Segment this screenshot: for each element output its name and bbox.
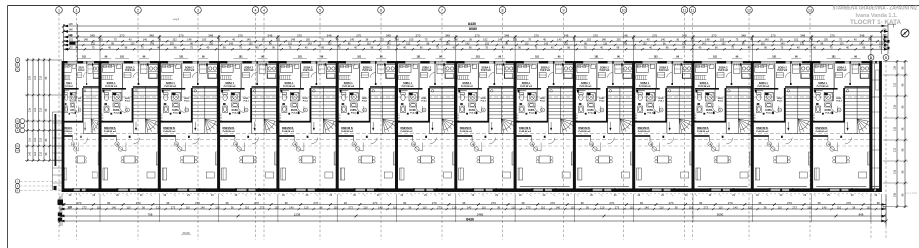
svg-text:36: 36 bbox=[877, 201, 881, 205]
svg-text:13: 13 bbox=[808, 8, 812, 12]
svg-text:143: 143 bbox=[386, 42, 391, 45]
svg-text:110: 110 bbox=[524, 42, 529, 45]
svg-text:110: 110 bbox=[452, 205, 457, 209]
svg-text:140: 140 bbox=[764, 38, 769, 42]
svg-text:270: 270 bbox=[593, 33, 598, 37]
svg-text:270: 270 bbox=[771, 33, 776, 37]
svg-text:105: 105 bbox=[513, 38, 518, 42]
svg-text:210: 210 bbox=[894, 147, 897, 152]
svg-text:110: 110 bbox=[482, 205, 487, 209]
svg-text:110: 110 bbox=[682, 42, 687, 45]
svg-text:273: 273 bbox=[881, 205, 886, 209]
svg-text:140: 140 bbox=[467, 205, 472, 209]
svg-text:181: 181 bbox=[179, 56, 184, 59]
svg-text:273: 273 bbox=[171, 205, 176, 209]
svg-text:36: 36 bbox=[675, 205, 678, 209]
svg-text:36: 36 bbox=[107, 201, 111, 205]
svg-text:152: 152 bbox=[249, 42, 254, 45]
svg-text:±0,00: ±0,00 bbox=[183, 231, 190, 235]
svg-text:270: 270 bbox=[475, 33, 480, 37]
svg-text:270: 270 bbox=[491, 201, 496, 205]
right end axis bubbles bbox=[868, 55, 874, 61]
svg-text:152: 152 bbox=[485, 42, 490, 45]
svg-text:273: 273 bbox=[792, 205, 797, 209]
svg-text:348: 348 bbox=[149, 33, 154, 37]
svg-text:135: 135 bbox=[894, 65, 897, 70]
svg-text:105: 105 bbox=[720, 38, 725, 42]
svg-text:143: 143 bbox=[308, 42, 313, 45]
unit 14 interior bbox=[812, 61, 870, 191]
svg-text:105: 105 bbox=[68, 206, 73, 209]
svg-text:148: 148 bbox=[394, 38, 399, 42]
svg-text:102: 102 bbox=[690, 38, 695, 42]
svg-text:152: 152 bbox=[564, 42, 569, 45]
svg-text:E: E bbox=[17, 63, 19, 67]
svg-text:218: 218 bbox=[894, 104, 897, 109]
svg-text:110: 110 bbox=[603, 42, 608, 45]
svg-text:1: 1 bbox=[58, 8, 60, 12]
svg-text:348: 348 bbox=[682, 33, 687, 37]
left axis bubbles bbox=[15, 58, 20, 63]
unit 2 interior bbox=[101, 61, 159, 191]
svg-text:273: 273 bbox=[704, 205, 709, 209]
svg-text:110: 110 bbox=[748, 205, 753, 209]
svg-text:148: 148 bbox=[291, 38, 296, 42]
svg-text:270: 270 bbox=[195, 201, 200, 205]
svg-text:110: 110 bbox=[422, 205, 427, 209]
svg-text:110: 110 bbox=[126, 205, 131, 209]
long dashed section lines through building bbox=[62, 96, 882, 98]
svg-text:143: 143 bbox=[150, 42, 155, 45]
svg-text:36: 36 bbox=[699, 201, 703, 205]
svg-text:2486: 2486 bbox=[477, 212, 484, 216]
svg-text:mj 1:100: mj 1:100 bbox=[905, 191, 917, 195]
svg-text:110: 110 bbox=[570, 205, 575, 209]
svg-text:102: 102 bbox=[794, 38, 799, 42]
svg-text:11: 11 bbox=[691, 8, 695, 12]
sheet border frame bbox=[7, 6, 9, 248]
svg-text:D: D bbox=[17, 67, 19, 71]
svg-text:Ivana Vanda 1.1.: Ivana Vanda 1.1. bbox=[856, 13, 899, 19]
svg-text:348: 348 bbox=[267, 33, 272, 37]
svg-text:273: 273 bbox=[260, 205, 265, 209]
svg-text:36: 36 bbox=[852, 205, 855, 209]
svg-text:140: 140 bbox=[868, 38, 873, 42]
svg-text:110: 110 bbox=[511, 205, 516, 209]
svg-text:348: 348 bbox=[90, 33, 95, 37]
svg-text:150: 150 bbox=[882, 38, 887, 41]
svg-text:2: 2 bbox=[137, 8, 139, 12]
svg-text:36: 36 bbox=[764, 205, 767, 209]
unit 13 interior bbox=[753, 61, 811, 191]
svg-text:110: 110 bbox=[837, 205, 842, 209]
svg-text:110: 110 bbox=[363, 205, 368, 209]
svg-text:218: 218 bbox=[894, 126, 897, 131]
building outer right wall bbox=[879, 61, 882, 192]
svg-text:270: 270 bbox=[179, 33, 184, 37]
svg-text:110: 110 bbox=[156, 205, 161, 209]
svg-text:5: 5 bbox=[319, 8, 321, 12]
svg-text:348: 348 bbox=[859, 33, 864, 37]
under-wall small dims row bbox=[62, 193, 882, 195]
svg-text:36: 36 bbox=[758, 201, 762, 205]
svg-text:STAMBENA GRAĐEVINA - ZAPADNI N: STAMBENA GRAĐEVINA - ZAPADNI NIZ bbox=[833, 6, 918, 12]
svg-text:270: 270 bbox=[787, 201, 792, 205]
svg-text:110: 110 bbox=[334, 205, 339, 209]
svg-text:36: 36 bbox=[403, 201, 407, 205]
svg-text:102: 102 bbox=[276, 38, 281, 42]
svg-text:105: 105 bbox=[824, 38, 829, 42]
svg-text:102: 102 bbox=[483, 38, 488, 42]
svg-text:3: 3 bbox=[197, 8, 199, 12]
svg-text:181: 181 bbox=[594, 56, 599, 59]
svg-text:210: 210 bbox=[894, 82, 897, 87]
svg-text:G: G bbox=[16, 144, 18, 148]
section marker circle top right bbox=[901, 29, 909, 37]
svg-text:10: 10 bbox=[622, 8, 626, 12]
svg-text:110: 110 bbox=[209, 42, 214, 45]
svg-text:110: 110 bbox=[130, 42, 135, 45]
unit 7 interior bbox=[397, 61, 455, 191]
svg-text:36: 36 bbox=[521, 201, 525, 205]
svg-text:270: 270 bbox=[830, 33, 835, 37]
svg-text:140: 140 bbox=[200, 205, 205, 209]
svg-text:140: 140 bbox=[112, 205, 117, 209]
svg-text:156: 156 bbox=[882, 28, 887, 31]
svg-text:270: 270 bbox=[297, 33, 302, 37]
svg-text:181: 181 bbox=[713, 56, 718, 59]
svg-text:110: 110 bbox=[659, 205, 664, 209]
unit 12 interior bbox=[694, 61, 752, 191]
svg-text:36: 36 bbox=[344, 201, 348, 205]
svg-text:181: 181 bbox=[832, 56, 837, 59]
svg-text:143: 143 bbox=[623, 42, 628, 45]
svg-text:8080: 8080 bbox=[469, 27, 477, 31]
svg-text:36: 36 bbox=[640, 201, 644, 205]
svg-text:110: 110 bbox=[304, 205, 309, 209]
svg-text:36: 36 bbox=[817, 201, 821, 205]
svg-text:4: 4 bbox=[255, 8, 257, 12]
bottom dimension chains bbox=[60, 204, 886, 206]
svg-text:116: 116 bbox=[28, 137, 31, 141]
svg-text:105: 105 bbox=[202, 38, 207, 42]
svg-text:270: 270 bbox=[711, 33, 716, 37]
svg-text:348: 348 bbox=[800, 33, 805, 37]
svg-text:348: 348 bbox=[445, 33, 450, 37]
svg-text:36: 36 bbox=[581, 201, 585, 205]
svg-text:105: 105 bbox=[306, 38, 311, 42]
svg-text:8430: 8430 bbox=[468, 22, 476, 26]
svg-text:270: 270 bbox=[254, 201, 259, 205]
svg-text:110: 110 bbox=[761, 42, 766, 45]
balcony slab line right half bbox=[520, 185, 570, 187]
svg-text:270: 270 bbox=[313, 201, 318, 205]
svg-text:181: 181 bbox=[535, 56, 540, 59]
svg-text:6: 6 bbox=[380, 8, 382, 12]
svg-text:140: 140 bbox=[557, 38, 562, 42]
svg-text:9: 9 bbox=[563, 8, 565, 12]
svg-text:235: 235 bbox=[894, 192, 897, 197]
svg-text:116: 116 bbox=[34, 75, 37, 79]
building outer left wall bbox=[62, 61, 65, 192]
top dimension chains bbox=[64, 25, 889, 27]
svg-text:110: 110 bbox=[689, 205, 694, 209]
svg-text:148: 148 bbox=[68, 29, 73, 32]
svg-text:181: 181 bbox=[239, 56, 244, 59]
svg-text:36: 36 bbox=[225, 201, 229, 205]
svg-text:270: 270 bbox=[77, 201, 82, 205]
svg-text:270: 270 bbox=[550, 201, 555, 205]
svg-text:152: 152 bbox=[721, 42, 726, 45]
svg-text:110: 110 bbox=[393, 205, 398, 209]
svg-text:848: 848 bbox=[859, 212, 864, 216]
svg-text:TLOCRT 1- KATA: TLOCRT 1- KATA bbox=[850, 20, 902, 26]
svg-text:B: B bbox=[17, 124, 19, 128]
svg-text:270: 270 bbox=[119, 33, 124, 37]
top / bottom exterior walls with windows bbox=[62, 61, 67, 64]
svg-text:105: 105 bbox=[98, 38, 103, 42]
svg-text:140: 140 bbox=[350, 38, 355, 42]
svg-text:148: 148 bbox=[602, 38, 607, 42]
svg-text:110: 110 bbox=[718, 205, 723, 209]
svg-text:110: 110 bbox=[186, 205, 191, 209]
svg-text:110: 110 bbox=[541, 205, 546, 209]
svg-text:273: 273 bbox=[437, 205, 442, 209]
svg-text:152: 152 bbox=[327, 42, 332, 45]
svg-text:148: 148 bbox=[84, 38, 89, 42]
svg-text:140: 140 bbox=[143, 38, 148, 42]
svg-text:36: 36 bbox=[142, 205, 145, 209]
svg-text:116: 116 bbox=[34, 137, 37, 141]
svg-text:148: 148 bbox=[68, 23, 73, 26]
svg-text:348: 348 bbox=[563, 33, 568, 37]
left attached entrance block bbox=[55, 114, 57, 166]
svg-text:140: 140 bbox=[454, 38, 459, 42]
svg-text:148: 148 bbox=[187, 38, 192, 42]
svg-text:102: 102 bbox=[587, 38, 592, 42]
svg-text:110: 110 bbox=[215, 205, 220, 209]
svg-text:140: 140 bbox=[661, 38, 666, 42]
svg-text:110: 110 bbox=[288, 42, 293, 45]
svg-text:7: 7 bbox=[441, 8, 443, 12]
svg-text:152: 152 bbox=[406, 42, 411, 45]
svg-text:C: C bbox=[17, 119, 19, 123]
svg-text:110: 110 bbox=[446, 42, 451, 45]
svg-text:348: 348 bbox=[386, 33, 391, 37]
grid axis bubbles bbox=[56, 7, 63, 14]
svg-text:270: 270 bbox=[432, 201, 437, 205]
svg-text:270: 270 bbox=[534, 33, 539, 37]
svg-text:270: 270 bbox=[356, 33, 361, 37]
svg-text:102: 102 bbox=[69, 38, 74, 42]
svg-text:273: 273 bbox=[348, 205, 353, 209]
svg-text:12: 12 bbox=[747, 8, 751, 12]
svg-text:110: 110 bbox=[866, 205, 871, 209]
svg-text:270: 270 bbox=[238, 33, 243, 37]
svg-text:270: 270 bbox=[669, 201, 674, 205]
svg-text:36: 36 bbox=[497, 205, 500, 209]
svg-text:110: 110 bbox=[778, 205, 783, 209]
svg-text:1: 1 bbox=[76, 8, 78, 12]
unit 6 interior bbox=[338, 61, 396, 191]
unit 9 interior bbox=[516, 61, 574, 191]
svg-text:110: 110 bbox=[97, 205, 102, 209]
svg-text:143: 143 bbox=[702, 42, 707, 45]
svg-text:36: 36 bbox=[166, 201, 170, 205]
svg-text:210: 210 bbox=[39, 75, 42, 80]
svg-text:36: 36 bbox=[408, 205, 411, 209]
svg-text:S: S bbox=[904, 32, 906, 36]
svg-text:275: 275 bbox=[28, 75, 31, 80]
svg-text:143: 143 bbox=[544, 42, 549, 45]
svg-text:152: 152 bbox=[800, 42, 805, 45]
svg-text:4: 4 bbox=[263, 8, 265, 12]
svg-text:K: K bbox=[17, 189, 19, 193]
svg-text:210: 210 bbox=[39, 107, 42, 112]
svg-text:110: 110 bbox=[807, 205, 812, 209]
unit 10 interior bbox=[575, 61, 633, 191]
svg-text:8430: 8430 bbox=[466, 217, 474, 221]
svg-text:270: 270 bbox=[728, 201, 733, 205]
svg-text:148: 148 bbox=[68, 34, 73, 37]
unit 8 interior bbox=[457, 61, 515, 191]
svg-text:158: 158 bbox=[882, 34, 887, 37]
party walls bbox=[99, 61, 102, 192]
svg-text:273: 273 bbox=[615, 205, 620, 209]
svg-text:181: 181 bbox=[476, 56, 481, 59]
svg-text:152: 152 bbox=[882, 42, 887, 45]
svg-text:148: 148 bbox=[498, 38, 503, 42]
svg-text:143: 143 bbox=[780, 42, 785, 45]
svg-text:798: 798 bbox=[148, 212, 153, 216]
svg-text:170: 170 bbox=[69, 47, 74, 50]
svg-text:36: 36 bbox=[586, 205, 589, 209]
unit 3 interior bbox=[160, 61, 218, 191]
svg-text:110: 110 bbox=[600, 205, 605, 209]
svg-text:152: 152 bbox=[643, 42, 648, 45]
svg-text:181: 181 bbox=[654, 56, 659, 59]
svg-text:270: 270 bbox=[609, 201, 614, 205]
svg-text:116: 116 bbox=[34, 151, 37, 155]
svg-text:140: 140 bbox=[28, 151, 31, 156]
svg-text:11: 11 bbox=[683, 8, 687, 12]
svg-text:140: 140 bbox=[733, 205, 738, 209]
svg-text:110: 110 bbox=[274, 205, 279, 209]
svg-text:110: 110 bbox=[630, 205, 635, 209]
svg-text:273: 273 bbox=[82, 205, 87, 209]
svg-text:140: 140 bbox=[556, 205, 561, 209]
svg-text:8: 8 bbox=[502, 8, 504, 12]
svg-text:143: 143 bbox=[465, 42, 470, 45]
svg-text:348: 348 bbox=[623, 33, 628, 37]
svg-text:102: 102 bbox=[380, 38, 385, 42]
svg-text:36: 36 bbox=[462, 201, 466, 205]
svg-text:105: 105 bbox=[409, 38, 414, 42]
svg-text:105: 105 bbox=[616, 38, 621, 42]
svg-text:181: 181 bbox=[82, 56, 87, 59]
svg-text:181: 181 bbox=[357, 56, 362, 59]
svg-text:181: 181 bbox=[417, 56, 422, 59]
svg-text:210: 210 bbox=[39, 151, 42, 156]
svg-text:270: 270 bbox=[136, 201, 141, 205]
svg-text:+xy,z: +xy,z bbox=[173, 17, 180, 21]
svg-text:148: 148 bbox=[882, 46, 887, 49]
svg-text:216: 216 bbox=[28, 107, 31, 112]
wall extension lines to bottom dims bbox=[99, 194, 101, 222]
svg-text:H: H bbox=[17, 149, 19, 153]
svg-text:348: 348 bbox=[327, 33, 332, 37]
svg-text:273: 273 bbox=[526, 205, 531, 209]
svg-text:110: 110 bbox=[840, 42, 845, 45]
unit 11 interior bbox=[635, 61, 693, 191]
left vertical dimension chain bbox=[27, 58, 29, 161]
svg-text:152: 152 bbox=[91, 42, 96, 45]
svg-text:218: 218 bbox=[894, 169, 897, 174]
svg-text:1238: 1238 bbox=[294, 212, 301, 216]
svg-text:140: 140 bbox=[246, 38, 251, 42]
svg-text:140: 140 bbox=[289, 205, 294, 209]
svg-text:36: 36 bbox=[320, 205, 323, 209]
svg-text:348: 348 bbox=[504, 33, 509, 37]
svg-text:210: 210 bbox=[39, 137, 42, 142]
svg-text:181: 181 bbox=[120, 56, 125, 59]
svg-text:148: 148 bbox=[705, 38, 710, 42]
svg-text:110: 110 bbox=[245, 205, 250, 209]
svg-text:143: 143 bbox=[229, 42, 234, 45]
svg-text:270: 270 bbox=[415, 33, 420, 37]
svg-text:116: 116 bbox=[34, 107, 37, 111]
unit 5 interior bbox=[279, 61, 337, 191]
unit 4 interior bbox=[219, 61, 277, 191]
svg-text:A: A bbox=[17, 128, 19, 132]
svg-text:102: 102 bbox=[172, 38, 177, 42]
svg-text:152: 152 bbox=[170, 42, 175, 45]
svg-text:348: 348 bbox=[741, 33, 746, 37]
svg-text:143: 143 bbox=[859, 42, 864, 45]
svg-text:270: 270 bbox=[373, 201, 378, 205]
right sliver bay bbox=[874, 64, 876, 191]
svg-text:181: 181 bbox=[298, 56, 303, 59]
svg-text:3690: 3690 bbox=[717, 212, 724, 216]
right vertical dimension chain bbox=[896, 60, 898, 208]
svg-text:140: 140 bbox=[644, 205, 649, 209]
svg-text:148: 148 bbox=[809, 38, 814, 42]
svg-text:348: 348 bbox=[208, 33, 213, 37]
svg-text:270: 270 bbox=[652, 33, 657, 37]
unit 1 interior (narrow end bay, compressed) bbox=[63, 61, 100, 191]
svg-text:270: 270 bbox=[846, 201, 851, 205]
svg-text:140: 140 bbox=[378, 205, 383, 209]
svg-text:36: 36 bbox=[285, 201, 289, 205]
svg-text:110: 110 bbox=[367, 42, 372, 45]
svg-text:36: 36 bbox=[231, 205, 234, 209]
svg-text:181: 181 bbox=[772, 56, 777, 59]
svg-text:140: 140 bbox=[822, 205, 827, 209]
